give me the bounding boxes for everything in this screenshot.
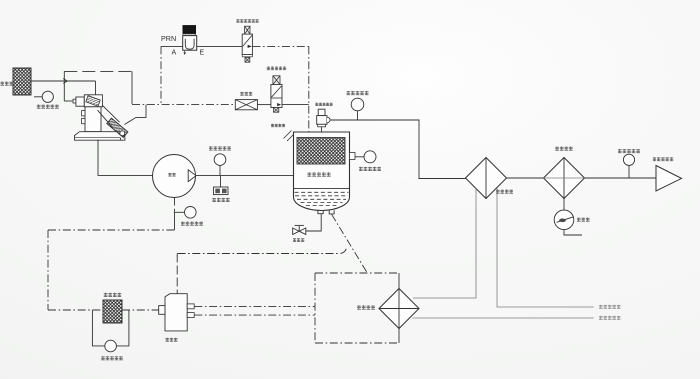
- label tiny near diagonal: [0, 0, 1, 1]
- wire tee vertical: [63, 71, 65, 101]
- wire vessel oil-out diagonal: [332, 214, 367, 272]
- water line aftercooler right: [497, 189, 594, 308]
- label bypass sensor: [101, 356, 123, 360]
- label oil filter: [104, 293, 121, 297]
- thermostatic valve block: [159, 294, 195, 331]
- pressure sensor P3: [355, 151, 376, 163]
- wire inlet drop: [95, 81, 97, 95]
- oil-gas separator vessel: [294, 132, 356, 211]
- drain trap: [554, 199, 582, 236]
- label T2: [181, 222, 203, 226]
- pressure sensor P2: [351, 98, 364, 120]
- label aftercooler: [496, 190, 513, 194]
- label separator: [307, 172, 330, 176]
- wire to intake inlet: [64, 100, 73, 102]
- label min pressure valve: [315, 103, 332, 106]
- label blowdown: [293, 238, 304, 242]
- label throttle: [240, 92, 252, 96]
- wire control drop: [131, 71, 133, 104]
- air filter (crosshatched box): [13, 68, 31, 95]
- minimum pressure valve: [317, 109, 330, 132]
- wire control top: [64, 70, 132, 72]
- label water separator: [555, 147, 572, 151]
- label water in: [599, 305, 621, 309]
- intake valve assembly: [73, 95, 128, 140]
- wire dash-dot y310 left: [48, 309, 103, 311]
- oil sensor T2: [175, 207, 197, 219]
- label air-filter: [1, 82, 14, 86]
- wire dash-dot y310 right: [122, 309, 159, 311]
- wire SV1 to drop: [252, 45, 308, 47]
- wire thermo top riser: [176, 254, 178, 294]
- wire PRN-A: [161, 45, 183, 47]
- water line aftercooler left: [413, 189, 476, 299]
- svg-text:PRN: PRN: [161, 34, 176, 43]
- airend main unit (circle): [153, 155, 197, 198]
- wire intake suction: [98, 140, 153, 176]
- label thermostatic valve: [166, 338, 178, 342]
- oil filter bypass loop: [92, 310, 128, 346]
- oil filter (crosshatched box): [103, 300, 122, 323]
- wire SV2 to vent drop: [282, 104, 309, 106]
- solenoid valve SV1 load/unload: [242, 26, 252, 62]
- wire airend oil-in: [174, 198, 176, 206]
- wire flap control diagonal: [125, 105, 147, 125]
- wire filter outlet: [31, 80, 96, 82]
- wire vent drop dash-dot: [308, 46, 310, 132]
- wire vessel drain: [306, 214, 321, 232]
- wire throttle to SV2: [257, 104, 271, 106]
- temp switch box: [214, 176, 229, 195]
- water line oil cooler out: [413, 317, 594, 319]
- wire oil lines to cooler: [194, 305, 315, 307]
- throttle valve: [235, 100, 257, 110]
- label SV1: [236, 19, 258, 22]
- label sensor P1: [37, 105, 59, 109]
- outlet triangle: [656, 166, 682, 192]
- temp sensor T1: [214, 154, 226, 176]
- svg-text:E: E: [200, 50, 205, 57]
- label T3: [618, 149, 640, 153]
- water separator diamond: [544, 158, 585, 199]
- blowdown valve: [293, 225, 306, 234]
- wire airend discharge: [196, 175, 294, 177]
- label water out: [599, 316, 621, 320]
- pointer lines vessel top-left: [284, 131, 294, 142]
- label P3: [359, 167, 381, 171]
- wire PRN-A drop: [160, 46, 162, 104]
- wire outlet pipe: [585, 177, 658, 179]
- aftercooler diamond: [466, 158, 507, 199]
- oil cooler diamond: [379, 289, 419, 329]
- oil cooler enclosure (dash-dot box): [315, 273, 399, 343]
- solenoid valve SV2 vent: [271, 76, 282, 112]
- label vessel outlet tiny: [271, 124, 285, 127]
- wire dash-dot y253: [178, 247, 347, 254]
- label oil cooler: [357, 305, 375, 309]
- wire dash-dot y230: [48, 229, 175, 231]
- bypass sensor circle: [105, 340, 117, 352]
- label SV2: [267, 67, 286, 71]
- label T1: [209, 146, 231, 150]
- label drain trap: [577, 218, 590, 222]
- pressure sensor P1 (circle): [34, 91, 53, 102]
- wire control dash-dot row: [132, 104, 235, 106]
- wire PRN-E: [197, 45, 243, 47]
- PRN pressure regulator valve: [183, 26, 197, 55]
- temp sensor T3: [623, 154, 634, 178]
- vessel bottom stubs: [318, 210, 334, 214]
- label airend: [168, 173, 175, 177]
- svg-text:A: A: [172, 50, 177, 57]
- label P2: [347, 91, 369, 95]
- wire pipe between coolers: [507, 177, 544, 179]
- wire dash-dot x48: [47, 230, 49, 310]
- label temp switch: [212, 198, 229, 202]
- label outlet: [653, 157, 673, 161]
- wire mpv out: [330, 120, 466, 179]
- junction tick: [63, 79, 67, 84]
